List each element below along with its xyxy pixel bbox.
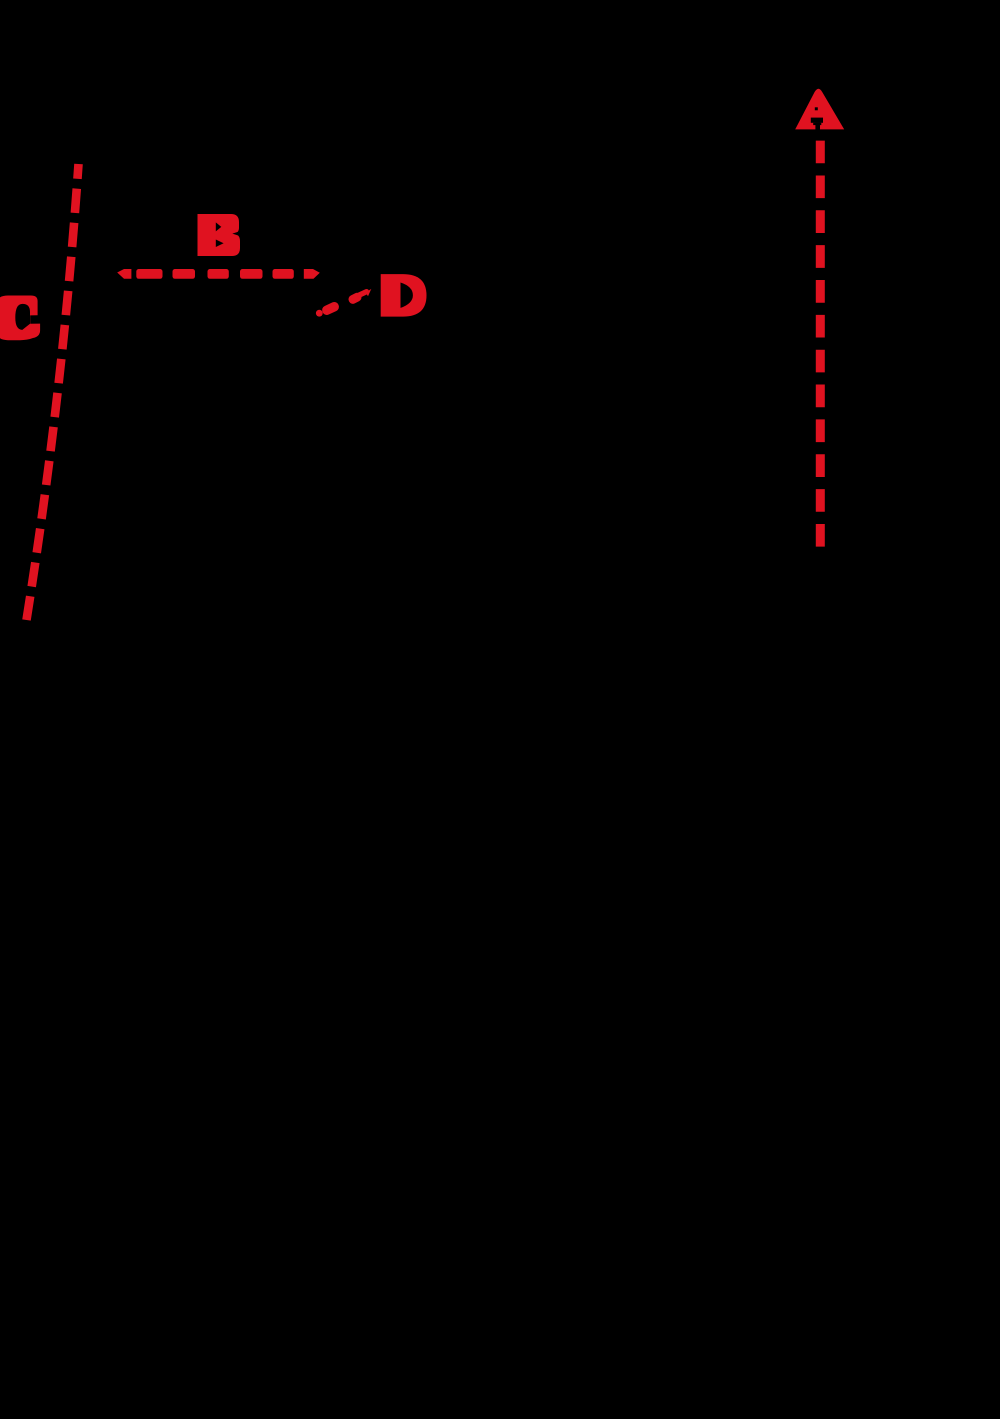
- label C: [0, 296, 40, 341]
- wire: dashed annotation line C (long slanted): [27, 164, 79, 620]
- node A: black counter dot of letter A: [815, 107, 818, 110]
- wire: dashed annotation line A (vertical): [816, 141, 825, 547]
- node A: black T-shaped cutout (underlying black arrow): [811, 118, 823, 123]
- wire: dashed annotation line B (horizontal): [117, 269, 320, 279]
- wire: dashed annotation line D (short slanted): [316, 288, 371, 316]
- label D: [381, 274, 427, 317]
- node A: red arrowhead triangle: [795, 89, 844, 130]
- label B: [198, 214, 241, 256]
